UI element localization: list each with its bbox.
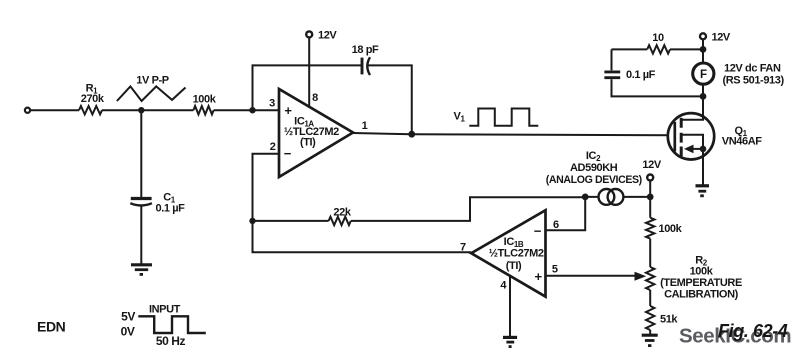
wire node H to drain xyxy=(702,96,704,119)
svg-text:1: 1 xyxy=(362,120,368,132)
svg-text:6: 6 xyxy=(553,219,559,231)
resistor R1 xyxy=(79,106,102,114)
svg-text:EDN: EDN xyxy=(37,318,66,334)
svg-text:−: − xyxy=(534,224,542,239)
fan branch top wire with resistor 10 xyxy=(612,48,648,50)
svg-text:(TEMPERATURE: (TEMPERATURE xyxy=(660,277,742,289)
feedback wire 18pF to output xyxy=(367,65,412,134)
wire source to ground xyxy=(702,149,704,186)
svg-text:18 pF: 18 pF xyxy=(352,44,379,56)
capacitor C1 xyxy=(131,197,152,200)
resistor 100k input xyxy=(193,106,213,114)
svg-text:12V dc FAN: 12V dc FAN xyxy=(724,63,781,75)
wire 100k to pot xyxy=(649,239,651,267)
12V terminal (divider) xyxy=(647,175,653,181)
node D (pin2/22k/pin7 junction) xyxy=(249,218,255,224)
wire pin 4 to ground xyxy=(509,276,511,337)
svg-text:50 Hz: 50 Hz xyxy=(156,334,186,348)
transistor Q1 body circle xyxy=(668,113,714,159)
svg-text:100k: 100k xyxy=(659,223,683,235)
svg-text:3: 3 xyxy=(269,98,275,110)
wire R1 to 100k xyxy=(102,109,193,111)
svg-text:+: + xyxy=(284,103,292,118)
output wire pin1 to gate xyxy=(353,133,675,135)
svg-text:AD590KH: AD590KH xyxy=(570,162,618,174)
ground IC1B pin4 xyxy=(503,336,517,339)
ground Q1 xyxy=(696,184,710,187)
wiper arrow wire from pin 5 xyxy=(546,275,637,277)
node F (AD590/12V/100k junction) xyxy=(647,194,654,201)
svg-text:F: F xyxy=(700,69,707,81)
wire node D to 22k xyxy=(253,220,329,222)
12V terminal IC1A pin8 xyxy=(306,31,312,37)
node G (10/12V/fan junction) xyxy=(700,46,707,53)
triangle wave symbol xyxy=(117,86,186,101)
wire 51k to ground xyxy=(649,330,651,335)
potentiometer R2 element xyxy=(646,267,654,290)
wire 12V to pin 8 xyxy=(308,38,310,108)
wiper arrowhead xyxy=(635,272,647,281)
wire 12V to node F xyxy=(649,181,651,218)
op-amp IC1B (left-pointing) xyxy=(471,210,545,296)
ground C1 xyxy=(131,263,152,266)
svg-text:270k: 270k xyxy=(81,93,105,105)
wire cap to bottom rail xyxy=(612,79,704,96)
svg-text:CALIBRATION): CALIBRATION) xyxy=(664,289,739,301)
svg-text:12V: 12V xyxy=(642,159,661,171)
node E (pin6/AD590 junction) xyxy=(582,194,589,201)
svg-text:(RS 501-913): (RS 501-913) xyxy=(723,74,785,86)
svg-text:0.1 µF: 0.1 µF xyxy=(626,69,656,81)
wire pot to 51k xyxy=(649,290,651,306)
fan branch left wire xyxy=(611,49,613,70)
svg-text:100k: 100k xyxy=(690,266,714,278)
svg-text:51k: 51k xyxy=(660,314,678,326)
wire fan to node H xyxy=(702,84,704,96)
svg-text:10: 10 xyxy=(652,32,664,44)
wire 10 to node G xyxy=(670,48,703,50)
feedback wire pin3 to 18pF xyxy=(253,65,363,110)
svg-text:0V: 0V xyxy=(121,325,135,339)
svg-text:1V P-P: 1V P-P xyxy=(136,75,169,87)
svg-text:(TI): (TI) xyxy=(300,137,316,149)
Q1 drain lead xyxy=(681,112,703,120)
resistor 51k xyxy=(646,306,654,330)
wire AD590 rail xyxy=(585,196,650,198)
svg-text:0.1 µF: 0.1 µF xyxy=(155,203,185,215)
resistor 22k xyxy=(329,217,351,225)
svg-text:+: + xyxy=(534,269,542,284)
svg-text:(TI): (TI) xyxy=(506,260,522,272)
node C (output/feedback junction) xyxy=(408,131,415,138)
svg-text:−: − xyxy=(284,146,292,161)
node B (pin3/feedback junction) xyxy=(249,107,255,113)
Q1 gate bar xyxy=(673,122,676,152)
svg-text:8: 8 xyxy=(312,92,318,104)
svg-text:12V: 12V xyxy=(712,32,731,44)
Q1 source node dot xyxy=(700,146,707,153)
svg-text:22k: 22k xyxy=(333,207,351,219)
node H (fan/cap/drain junction) xyxy=(700,93,707,100)
svg-text:INPUT: INPUT xyxy=(149,304,181,316)
op-amp IC1A xyxy=(279,89,353,177)
resistor 100k divider xyxy=(646,218,654,239)
fan motor F xyxy=(693,63,714,84)
V1 square wave symbol xyxy=(469,109,538,126)
input square wave symbol xyxy=(138,316,206,333)
ground divider xyxy=(642,334,658,337)
svg-text:(ANALOG DEVICES): (ANALOG DEVICES) xyxy=(546,174,642,186)
wire pin 6 xyxy=(546,197,586,230)
svg-text:½TLC27M2: ½TLC27M2 xyxy=(489,248,544,260)
Q1 body lead xyxy=(681,135,703,149)
svg-text:7: 7 xyxy=(460,242,466,254)
input terminal xyxy=(25,108,30,113)
svg-text:VN46AF: VN46AF xyxy=(722,136,762,148)
wire 22k to pin 6 rail xyxy=(351,197,585,221)
Q1 channel segments xyxy=(680,118,683,156)
node A (R1/C1/100k junction) xyxy=(138,107,144,113)
svg-text:12V: 12V xyxy=(318,30,337,42)
wire 100k to op-amp pin 3 xyxy=(214,109,279,111)
wire node A down to C1 xyxy=(140,110,142,197)
current source IC2 AD590 symbol (two circles) xyxy=(599,189,615,205)
svg-text:5: 5 xyxy=(552,264,558,276)
svg-text:Fig. 62-4: Fig. 62-4 xyxy=(718,321,788,341)
resistor 10 xyxy=(647,45,670,53)
svg-text:100k: 100k xyxy=(193,94,217,106)
Q1 source lead with arrow xyxy=(693,148,704,150)
wire node D down to pin 7 xyxy=(253,221,472,252)
wire C1 to ground xyxy=(140,205,142,265)
svg-text:2: 2 xyxy=(270,141,276,153)
wire pin2 to 22k junction xyxy=(253,154,279,221)
wire input to R1 xyxy=(30,109,79,111)
12V terminal (fan) xyxy=(700,33,706,39)
svg-text:5V: 5V xyxy=(121,310,135,324)
capacitor 18pF xyxy=(361,58,364,75)
capacitor 0.1uF (fan) xyxy=(604,70,620,73)
wire 12V to node G xyxy=(702,40,704,63)
